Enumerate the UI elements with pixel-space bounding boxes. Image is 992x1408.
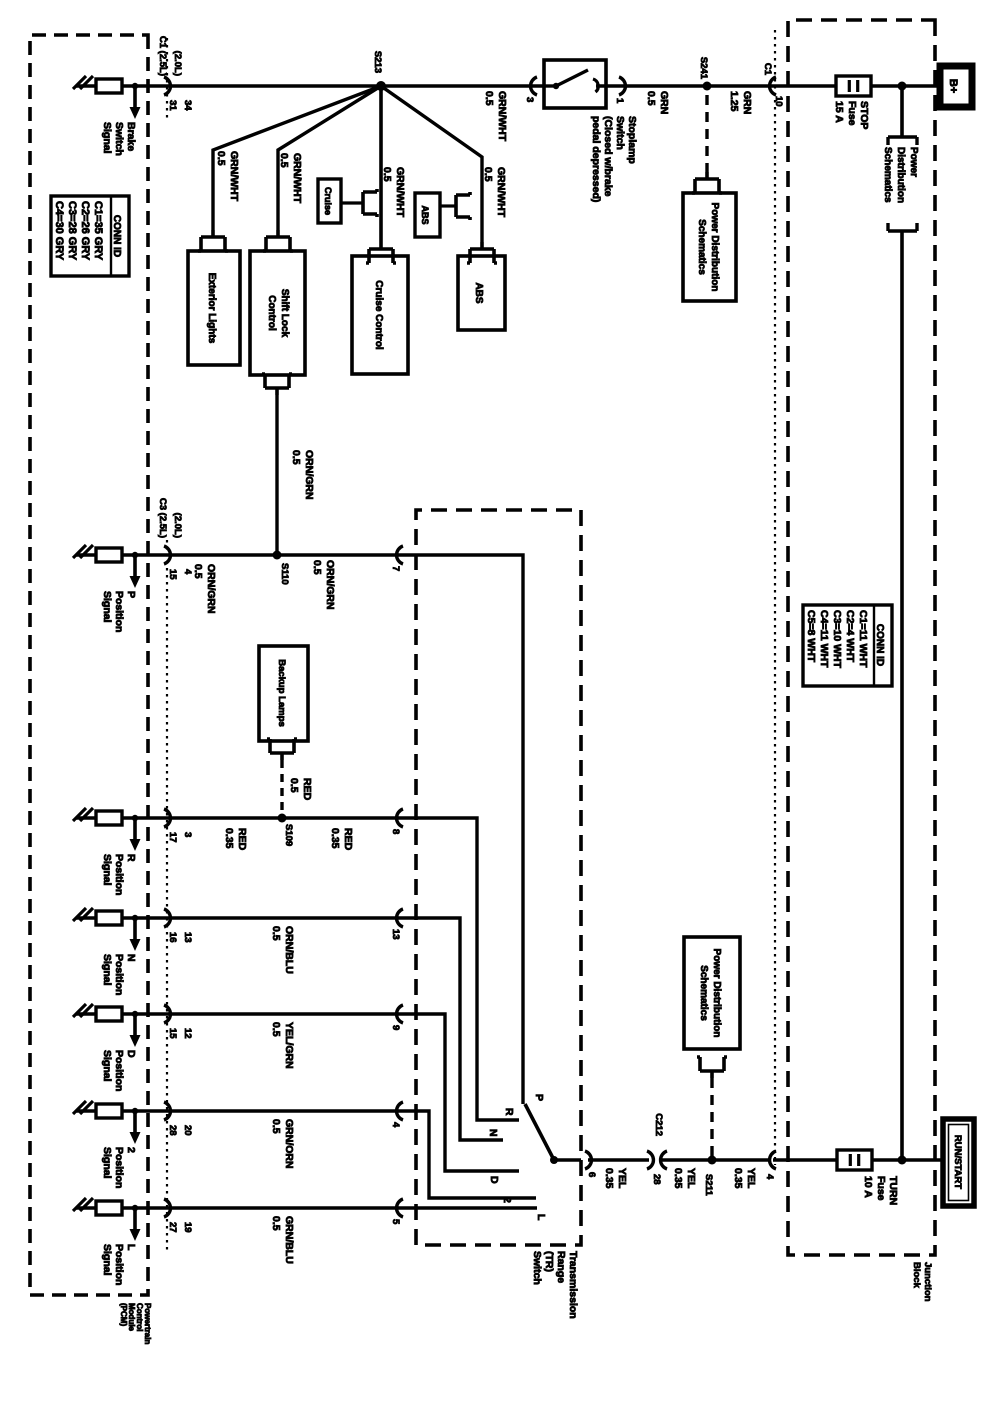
wire S213 to Exterior Lights (213, 86, 381, 230)
svg-text:pedal depressed): pedal depressed) (590, 116, 602, 202)
svg-text:0.35: 0.35 (672, 1168, 684, 1189)
svg-text:L: L (535, 1214, 547, 1221)
label GRN/WHT 0.5 (bus) (483, 91, 508, 142)
svg-text:Transmission: Transmission (567, 1251, 579, 1319)
pin 4 (TR) (390, 1122, 401, 1128)
svg-text:ORN/GRN: ORN/GRN (303, 450, 315, 500)
svg-text:RED: RED (301, 778, 313, 801)
svg-text:Schematics: Schematics (698, 965, 709, 1021)
connector arc stoplamp pin 3 (531, 77, 537, 95)
wire end continuation N (73, 908, 93, 921)
connector cup Shift Lock Control output (262, 374, 292, 395)
svg-text:2: 2 (501, 1197, 513, 1203)
svg-text:Control: Control (266, 295, 277, 331)
wire N position: TR connector to PCM (76, 916, 416, 920)
label ORN/GRN 0.5 (P lower) (192, 564, 217, 614)
svg-text:S109: S109 (283, 824, 294, 846)
svg-text:N: N (487, 1129, 499, 1137)
PCM internal box P (96, 548, 122, 562)
connector arc TR pin 8 (397, 809, 403, 827)
off-page label Power Distribution Schematics (inline) (882, 147, 919, 203)
svg-text:GRN: GRN (741, 91, 753, 114)
svg-text:0.5: 0.5 (270, 926, 282, 941)
svg-text:S211: S211 (703, 1174, 714, 1196)
pin 10 (773, 96, 784, 107)
svg-text:(2.0L): (2.0L) (172, 513, 183, 538)
svg-text:0.5: 0.5 (311, 560, 323, 575)
contact label D (488, 1176, 500, 1184)
svg-text:Power: Power (908, 147, 919, 177)
svg-text:GRN/WHT: GRN/WHT (394, 167, 406, 218)
connector cup Cruise Control (366, 242, 396, 263)
switch blade P to common (525, 1104, 558, 1164)
dotted connector line C1/C2 at PCM (166, 38, 168, 120)
svg-text:13: 13 (390, 929, 401, 940)
wire end continuation D (73, 1004, 93, 1017)
pin numbers 2 (167, 1125, 193, 1136)
svg-text:7: 7 (390, 566, 401, 571)
svg-text:C3 (2.5L): C3 (2.5L) (157, 498, 168, 538)
svg-text:17: 17 (167, 832, 178, 843)
connector arc C-PCM N (164, 909, 170, 927)
svg-text:GRN/WHT: GRN/WHT (228, 151, 240, 202)
svg-text:Position: Position (113, 1147, 125, 1188)
svg-text:Fuse: Fuse (846, 101, 858, 126)
svg-text:R: R (125, 854, 137, 862)
wire bus fuse to C1 connector (707, 84, 836, 88)
connector arc C-PCM R (164, 809, 170, 827)
svg-text:0.5: 0.5 (482, 167, 494, 182)
svg-text:RUN/START: RUN/START (952, 1135, 963, 1189)
label GRN 0.5 (645, 91, 670, 114)
svg-text:0.5: 0.5 (270, 1216, 282, 1231)
svg-text:Fuse: Fuse (875, 1176, 887, 1201)
stoplamp switch box (544, 60, 615, 108)
svg-text:6: 6 (586, 1172, 597, 1177)
signal arrow L (130, 1205, 141, 1241)
wire B+ drop to bus (871, 84, 940, 88)
wire S211 to junction block connector 4 (712, 1158, 768, 1162)
svg-text:YEL/GRN: YEL/GRN (283, 1022, 295, 1069)
svg-text:Shift Lock: Shift Lock (279, 289, 290, 338)
box Backup Lamps (259, 646, 308, 741)
dashed wire backup lamps to S109 (280, 760, 283, 817)
svg-text:0.5: 0.5 (270, 1022, 282, 1037)
off-page bracket right (888, 223, 917, 231)
svg-text:1.25: 1.25 (728, 91, 740, 112)
svg-text:GRN/WHT: GRN/WHT (496, 91, 508, 142)
label ORN/GRN 0.5 (shift lock out) (290, 450, 315, 500)
label GRN/WHT 0.5 (abs) (482, 167, 507, 218)
svg-text:P: P (125, 591, 137, 598)
label C3 (2.5L) / (2.0L) (157, 498, 183, 538)
connector arc C1-10 (770, 77, 776, 95)
box ABS (small) (415, 193, 440, 237)
label YEL/GRN 0.5 (270, 1022, 295, 1069)
svg-text:C3=28 GRY: C3=28 GRY (66, 201, 78, 261)
svg-text:Power Distribution: Power Distribution (711, 949, 722, 1038)
svg-text:3: 3 (182, 832, 193, 837)
signal arrow R (130, 815, 141, 851)
label RED 0.5 (288, 778, 313, 801)
connector arc C-PCM L (164, 1199, 170, 1217)
wire P position: TR connector to PCM (76, 553, 416, 557)
label S109 (283, 824, 294, 846)
label Transmission Range (TR) Switch (531, 1251, 579, 1319)
wire N inside TR (416, 918, 503, 1140)
connector arc TR pin 4 (397, 1102, 403, 1120)
wire bus S213 to PCM (brake signal) (76, 84, 381, 88)
svg-text:GRN: GRN (658, 91, 670, 114)
node S241 (703, 82, 712, 91)
svg-text:15: 15 (167, 1028, 178, 1039)
B+ box (940, 66, 972, 107)
label STOP Fuse 15 A (833, 101, 870, 129)
box ABS (458, 256, 505, 330)
signal arrow N (130, 915, 141, 951)
svg-text:CONN ID: CONN ID (874, 624, 885, 666)
label RED 0.35 (R upper) (329, 828, 354, 851)
svg-text:C1 (2.5L): C1 (2.5L) (157, 36, 168, 76)
dotted connector line C3 at PCM (166, 540, 168, 1250)
svg-text:C2=4 WHT: C2=4 WHT (844, 610, 856, 663)
box Cruise Control (352, 256, 408, 374)
svg-text:TURN: TURN (887, 1176, 899, 1205)
svg-text:Position: Position (113, 591, 125, 632)
connector arc TR pin 5 (397, 1199, 403, 1217)
label R Position Signal (101, 854, 137, 895)
RUN/START box (943, 1119, 974, 1206)
connector arc TR pin 6 (585, 1151, 591, 1169)
svg-text:C3=10 WHT: C3=10 WHT (831, 610, 843, 669)
svg-text:C212: C212 (653, 1113, 664, 1136)
connector cup PDS box 1 (692, 172, 722, 193)
label S241 (698, 57, 709, 80)
contact label N (487, 1129, 499, 1137)
svg-text:C1: C1 (762, 63, 773, 76)
svg-text:Signal: Signal (101, 591, 113, 623)
PCM internal box 2 (96, 1104, 122, 1118)
svg-text:RED: RED (236, 828, 248, 851)
svg-text:4: 4 (764, 1174, 775, 1180)
label Stoplamp Switch (Closed w/brake pedal depressed) (590, 116, 638, 202)
connector arc C-PCM 2 (164, 1102, 170, 1120)
svg-text:13: 13 (182, 932, 193, 943)
svg-text:GRN/BLU: GRN/BLU (283, 1216, 295, 1264)
svg-text:0.35: 0.35 (329, 828, 341, 849)
wire D position: TR connector to PCM (76, 1012, 416, 1016)
wire end continuation 2 (73, 1101, 93, 1114)
node bus junction at B+ (898, 82, 907, 91)
wire D inside TR (416, 1014, 519, 1171)
svg-text:0.35: 0.35 (223, 828, 235, 849)
svg-text:16: 16 (167, 932, 178, 943)
wire end continuation L (73, 1198, 93, 1211)
PCM internal box L (96, 1201, 122, 1215)
svg-text:ORN/BLU: ORN/BLU (283, 926, 295, 974)
node S211 (708, 1156, 717, 1165)
svg-text:34: 34 (182, 100, 193, 111)
svg-text:Power Distribution: Power Distribution (709, 203, 720, 292)
wire end continuation R (73, 808, 93, 821)
label S213 (372, 51, 383, 73)
wire 2 position: TR connector to PCM (76, 1109, 416, 1113)
connector cup PDS box 2 (697, 1057, 727, 1078)
pin 5 (390, 1219, 401, 1225)
svg-text:P: P (533, 1094, 545, 1101)
svg-text:GRN/WHT: GRN/WHT (291, 153, 303, 204)
label D Position Signal (101, 1050, 137, 1091)
connector cup Shift Lock Control (263, 230, 293, 251)
wire end continuation P (73, 545, 93, 558)
PCM dashed box (30, 35, 148, 1295)
label GRN/WHT 0.5 (cruise control) (381, 167, 406, 218)
fuse STOP 15A (836, 76, 871, 96)
pin 3 (524, 97, 535, 102)
svg-text:Stoplamp: Stoplamp (626, 116, 638, 164)
contact label R (503, 1108, 515, 1116)
svg-text:2: 2 (125, 1147, 137, 1153)
contact label P (533, 1094, 545, 1101)
signal arrow D (130, 1011, 141, 1047)
connector arc TR pin 9 (397, 1005, 403, 1023)
pin 6 (586, 1172, 597, 1177)
connector arc C-PCM brake (164, 77, 170, 95)
svg-text:ABS: ABS (473, 282, 484, 303)
svg-text:L: L (125, 1244, 137, 1251)
svg-text:Exterior Lights: Exterior Lights (206, 273, 217, 344)
svg-text:(2.0L): (2.0L) (172, 51, 183, 76)
node S213 (376, 81, 386, 91)
pin numbers D (167, 1028, 193, 1039)
wire internal bus right segment (900, 231, 904, 1160)
svg-text:(Closed w/brake: (Closed w/brake (602, 116, 614, 197)
wire TURN fuse to RUN/START (872, 1158, 943, 1162)
PCM internal box R (96, 811, 122, 825)
svg-text:Backup Lamps: Backup Lamps (276, 659, 287, 727)
connector arc C-PCM P (164, 546, 170, 564)
svg-text:Range: Range (555, 1251, 567, 1283)
svg-text:YEL: YEL (745, 1168, 757, 1189)
svg-text:Signal: Signal (101, 122, 113, 154)
box Power Distribution Schematics (S241) (683, 193, 736, 301)
svg-text:20: 20 (182, 1125, 193, 1136)
svg-text:C5=8 WHT: C5=8 WHT (805, 610, 817, 663)
label Powertrain Control Module (PCM) (119, 1303, 152, 1344)
svg-text:ORN/GRN: ORN/GRN (324, 560, 336, 610)
node bus junction at RUN/START line (898, 1156, 907, 1165)
junction block label (911, 1262, 933, 1302)
svg-text:GRN/ORN: GRN/ORN (283, 1119, 295, 1169)
pin numbers L (167, 1222, 193, 1233)
wire L position: TR connector to PCM (76, 1206, 416, 1210)
signal arrow 2 (130, 1108, 141, 1144)
svg-text:0.35: 0.35 (603, 1168, 615, 1189)
box Exterior Lights (188, 251, 240, 365)
connector arc TR pin 13 (397, 909, 403, 927)
svg-text:YEL: YEL (616, 1168, 628, 1189)
svg-text:(TR): (TR) (543, 1251, 555, 1272)
connector C212 (647, 1151, 667, 1169)
signal arrow brake (130, 83, 141, 119)
svg-text:Distribution: Distribution (895, 147, 906, 203)
CONN ID table (PCM) (51, 196, 129, 276)
pin 7 (390, 566, 401, 571)
svg-text:C2=26 GRY: C2=26 GRY (79, 201, 91, 261)
svg-text:Signal: Signal (101, 1244, 113, 1276)
svg-text:0.5: 0.5 (288, 778, 300, 793)
svg-text:0.5: 0.5 (483, 91, 495, 106)
wire end continuation brake (73, 76, 93, 89)
svg-text:28: 28 (167, 1125, 178, 1136)
svg-text:RED: RED (342, 828, 354, 851)
label YEL 0.35 (C212 to S211) (672, 1168, 697, 1189)
wire common to TR top connector (554, 1158, 581, 1162)
svg-text:S110: S110 (279, 563, 290, 585)
off-page bracket left (888, 137, 917, 145)
svg-text:4: 4 (390, 1122, 401, 1128)
svg-text:B+: B+ (947, 79, 959, 93)
svg-text:Block: Block (911, 1262, 922, 1289)
dashed wire S211 to Power Distribution Schematics 2 (710, 1078, 713, 1160)
label YEL 0.35 (below C212) (603, 1168, 628, 1189)
label P Position Signal (101, 591, 137, 632)
label S211 (703, 1174, 714, 1196)
junction block dashed boundary (788, 20, 935, 1255)
wire shift lock to S110 (275, 395, 278, 555)
svg-text:D: D (488, 1176, 500, 1184)
label YEL 0.35 (S211 to C4) (732, 1168, 757, 1189)
tap cup ABS (440, 192, 470, 220)
svg-text:Signal: Signal (101, 1050, 113, 1082)
svg-text:R: R (503, 1108, 515, 1116)
wire bus stoplamp to S213 (381, 84, 544, 88)
wire L inside TR (contact) (416, 1206, 537, 1209)
svg-text:Signal: Signal (101, 954, 113, 986)
svg-text:10: 10 (773, 96, 784, 107)
label GRN/ORN 0.5 (270, 1119, 295, 1169)
label L Position Signal (101, 1244, 137, 1285)
wire P inside TR (416, 555, 523, 1104)
svg-text:19: 19 (182, 1222, 193, 1233)
transmission range switch dashed box (416, 510, 581, 1245)
svg-text:12: 12 (182, 1028, 193, 1039)
wire bus S241 to stoplamp pin 1 (615, 84, 707, 88)
svg-text:ORN/GRN: ORN/GRN (205, 564, 217, 614)
PCM internal box brake (96, 79, 122, 93)
svg-text:4: 4 (182, 569, 193, 575)
wire connector 4 to TURN fuse (773, 1158, 837, 1162)
svg-text:Cruise Control: Cruise Control (373, 280, 384, 350)
connector arc TR pin 7 (397, 546, 403, 564)
CONN ID table (TR switch) (803, 605, 892, 686)
pin numbers P (167, 569, 193, 580)
dotted connector line C1 (junction block) (774, 30, 776, 1165)
fuse TURN 10A (837, 1150, 872, 1170)
svg-text:S213: S213 (372, 51, 383, 73)
svg-text:8: 8 (390, 829, 401, 834)
svg-text:N: N (125, 954, 137, 962)
box Shift Lock Control (250, 251, 305, 375)
connector arc C-PCM D (164, 1005, 170, 1023)
connector arc stoplamp pin 1 (619, 77, 625, 95)
svg-text:0.5: 0.5 (270, 1119, 282, 1134)
tap cup Cruise (341, 189, 377, 217)
svg-text:1: 1 (614, 98, 625, 104)
pin 8 (390, 829, 401, 834)
label Brake Switch Signal (101, 122, 137, 156)
wire S213 to Shift Lock Control (278, 86, 381, 230)
pin 13 (390, 929, 401, 940)
svg-text:Schematics: Schematics (696, 219, 707, 275)
svg-text:9: 9 (390, 1025, 401, 1030)
svg-text:15 A: 15 A (833, 101, 845, 123)
label GRN 1.25 (728, 91, 753, 114)
svg-text:28: 28 (651, 1174, 662, 1185)
svg-text:C4=30 GRY: C4=30 GRY (53, 201, 65, 261)
PCM internal box N (96, 911, 122, 925)
svg-text:0.5: 0.5 (290, 450, 302, 465)
svg-text:Cruise: Cruise (323, 187, 333, 215)
wire internal bus left segment (900, 86, 904, 137)
svg-text:ABS: ABS (420, 205, 430, 224)
wire S213 to ABS (381, 86, 482, 242)
connector arc junction block pin 4 (770, 1151, 776, 1169)
contact label 2 (501, 1197, 513, 1203)
box Cruise (small) (318, 179, 341, 223)
label ORN/GRN 0.5 (P upper) (311, 560, 336, 610)
svg-text:C1=11 WHT: C1=11 WHT (857, 610, 869, 668)
svg-text:C1=35 GRY: C1=35 GRY (92, 201, 104, 261)
label C212 (653, 1113, 664, 1136)
wire common TR to C212 (588, 1158, 649, 1162)
wire R inside TR (416, 818, 519, 1120)
svg-text:Switch: Switch (614, 116, 626, 150)
wire S213 to Cruise Control (379, 86, 383, 242)
node S109 (278, 814, 287, 823)
pin 28 (651, 1174, 662, 1185)
svg-text:10 A: 10 A (862, 1176, 874, 1198)
svg-text:CONN ID: CONN ID (111, 215, 122, 257)
svg-text:Position: Position (113, 954, 125, 995)
svg-text:Switch: Switch (531, 1251, 543, 1285)
signal arrow P (130, 552, 141, 588)
label S110 (279, 563, 290, 585)
svg-text:Schematics: Schematics (882, 147, 893, 203)
pin 4 (junction block) (764, 1174, 775, 1180)
svg-text:Position: Position (113, 1244, 125, 1285)
dashed wire S241 to Power Distribution Schematics (705, 95, 708, 172)
svg-text:0.5: 0.5 (381, 167, 393, 182)
svg-text:(PCM): (PCM) (119, 1303, 128, 1326)
label GRN/WHT 0.5 (shift lock) (278, 153, 303, 204)
pin numbers R (167, 832, 193, 843)
svg-text:0.5: 0.5 (645, 91, 657, 106)
pin 9 (390, 1025, 401, 1030)
label C1 (762, 63, 773, 76)
svg-text:Signal: Signal (101, 1147, 113, 1179)
svg-text:31: 31 (167, 100, 178, 111)
label N Position Signal (101, 954, 137, 995)
connector cup Backup Lamps (267, 739, 297, 760)
box Power Distribution Schematics (S211) (684, 937, 740, 1049)
svg-text:STOP: STOP (858, 101, 870, 129)
svg-text:C4=11 WHT: C4=11 WHT (818, 610, 830, 668)
label TURN Fuse 10 A (862, 1176, 899, 1205)
wire C212 to S211 (661, 1158, 712, 1162)
svg-text:0.35: 0.35 (732, 1168, 744, 1189)
pin numbers N (167, 932, 193, 943)
